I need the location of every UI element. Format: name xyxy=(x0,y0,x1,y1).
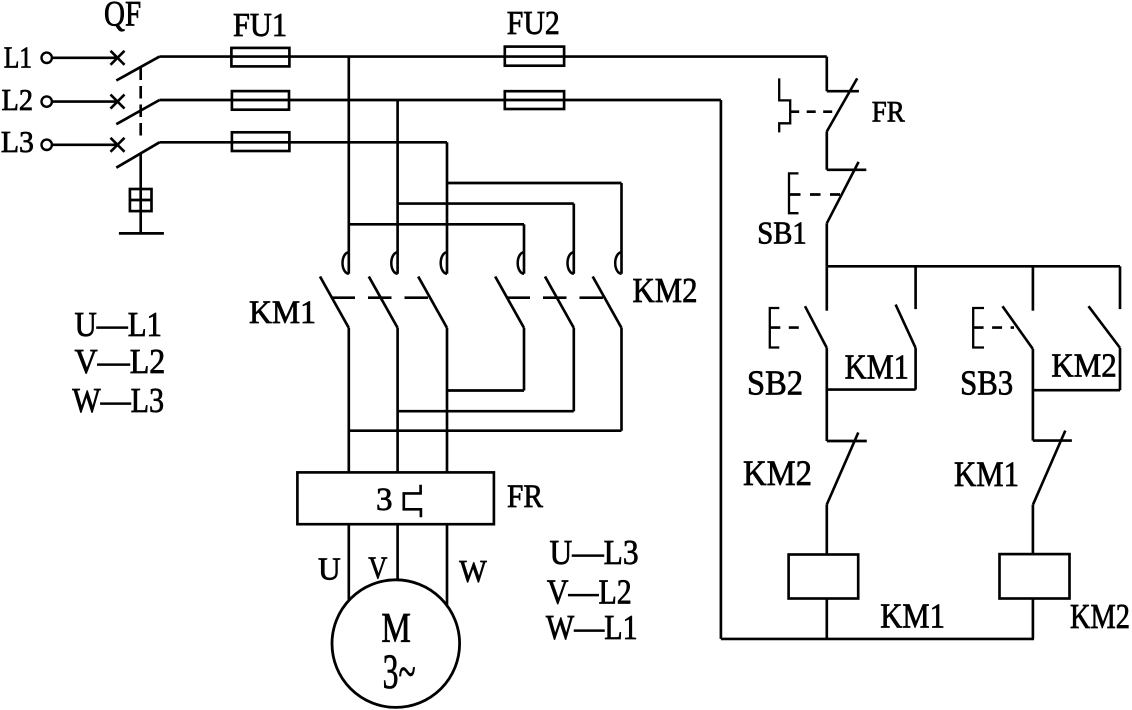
svg-text:KM1: KM1 xyxy=(249,295,316,331)
svg-text:W—L3: W—L3 xyxy=(72,381,164,420)
svg-text:W: W xyxy=(459,553,487,589)
svg-text:V: V xyxy=(368,549,387,585)
svg-text:W—L1: W—L1 xyxy=(546,608,638,647)
svg-text:KM1: KM1 xyxy=(954,454,1019,494)
svg-text:KM2: KM2 xyxy=(633,271,698,310)
svg-text:KM2: KM2 xyxy=(1051,348,1116,385)
svg-text:3~: 3~ xyxy=(383,643,416,699)
svg-text:U—L1: U—L1 xyxy=(75,305,163,344)
svg-text:KM2: KM2 xyxy=(1070,597,1130,636)
svg-text:KM1: KM1 xyxy=(880,597,945,636)
svg-text:L3: L3 xyxy=(1,124,34,159)
svg-text:U—L3: U—L3 xyxy=(550,533,639,572)
svg-text:SB1: SB1 xyxy=(757,214,807,250)
svg-text:U: U xyxy=(318,551,341,587)
svg-text:FU1: FU1 xyxy=(233,7,287,44)
svg-text:KM2: KM2 xyxy=(743,453,812,493)
svg-text:FR: FR xyxy=(872,95,905,128)
svg-text:V—L2: V—L2 xyxy=(75,342,166,381)
svg-text:QF: QF xyxy=(104,0,141,34)
svg-text:L2: L2 xyxy=(2,82,34,117)
svg-text:L1: L1 xyxy=(4,40,32,75)
svg-text:SB2: SB2 xyxy=(747,363,803,402)
svg-text:FR: FR xyxy=(507,479,543,515)
svg-text:FU2: FU2 xyxy=(507,5,560,42)
svg-text:V—L2: V—L2 xyxy=(547,573,632,612)
svg-text:KM1: KM1 xyxy=(845,348,909,387)
svg-text:3: 3 xyxy=(376,482,393,518)
svg-text:SB3: SB3 xyxy=(960,363,1013,402)
